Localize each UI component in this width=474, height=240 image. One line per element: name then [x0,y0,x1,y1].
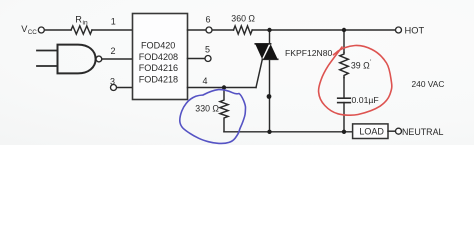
junction top snubber [342,28,346,32]
svg-text:5: 5 [205,45,210,55]
wire Rin to pin1 [92,29,133,31]
svg-text:CC: CC [28,29,38,36]
junction bottom triac [267,130,271,134]
svg-text:4: 4 [203,76,208,86]
svg-text:in: in [83,19,88,26]
label Rin [75,14,88,26]
triac Q1 bottom bar [262,58,277,60]
node pin3 terminal [111,85,117,91]
op-to-coupler box U2 FOD42xx [133,14,188,100]
junction top triac [267,28,271,32]
wire gate diagonal [256,59,262,87]
wire LOAD to NEUTRAL [388,130,395,132]
svg-text:FKPF12N80: FKPF12N80 [285,48,333,58]
wire pin4 to gate node [188,87,257,89]
svg-text:0.01µF: 0.01µF [352,95,379,105]
wire VCC to Rin [45,29,71,31]
junction gate node [222,85,226,89]
svg-text:1: 1 [111,17,116,27]
resistor 39ohm vertical [340,53,349,78]
triac Q1 left triangle [255,44,269,59]
NAND gate output bubble [96,56,102,62]
wire NAND output to pin2 [102,58,133,60]
svg-text:FOD420: FOD420 [141,41,175,51]
svg-text:NEUTRAL: NEUTRAL [402,127,443,137]
annotation blue pen circle around 330 ohm [180,90,246,144]
annotation red pen circle around snubber [319,45,392,115]
resistor Rin [71,26,92,34]
svg-text:R: R [75,14,82,24]
svg-text:39 Ω: 39 Ω [351,61,370,71]
resistor 360ohm [234,26,253,34]
wire cap to bottom rail [343,103,345,132]
svg-text:LOAD: LOAD [359,127,384,137]
svg-text:3: 3 [110,77,115,87]
wire 39ohm to cap [343,78,345,99]
junction triac MT1 [267,94,272,99]
wire pin6 to terminal [188,29,206,31]
wire triac MT2 from top rail [269,30,271,44]
node pin6 terminal [206,27,212,33]
node HOT terminal [396,27,402,33]
svg-text:6: 6 [206,15,211,25]
junction bottom snubber [342,130,346,134]
capacitor 0.01uF bottom plate [338,102,351,104]
wire R360 to HOT [252,29,395,31]
svg-text:240 VAC: 240 VAC [412,79,445,89]
svg-text:330 Ω: 330 Ω [195,104,219,114]
LOAD box [353,124,388,139]
wire bottom rail [224,131,353,133]
wire pin5 to terminal [188,58,205,60]
node pin5 terminal [205,56,211,62]
wire snubber branch top [343,30,345,53]
svg-text:360 Ω: 360 Ω [231,14,255,24]
NAND gate input stub A [37,50,58,52]
svg-text:FOD4216: FOD4216 [139,63,178,73]
triac Q1 top bar [255,43,270,45]
wire pin3 to box [117,87,133,89]
NAND gate U1 body [58,45,96,74]
resistor 330ohm vertical [220,88,228,132]
svg-text:HOT: HOT [405,26,425,36]
triac Q1 right triangle [263,44,277,59]
node NEUTRAL terminal [396,128,402,134]
label VCC [21,24,37,36]
wire triac MT1 down to bottom rail [269,59,271,132]
NAND gate input stub B [37,65,58,67]
svg-text:2: 2 [111,46,116,56]
svg-text:’: ’ [370,59,372,66]
node VCC terminal [38,27,44,33]
svg-text:FOD4218: FOD4218 [139,74,178,84]
svg-text:FOD4208: FOD4208 [139,52,178,62]
capacitor 0.01uF top plate [338,97,351,99]
wire pin6 terminal to R360 [212,29,233,31]
